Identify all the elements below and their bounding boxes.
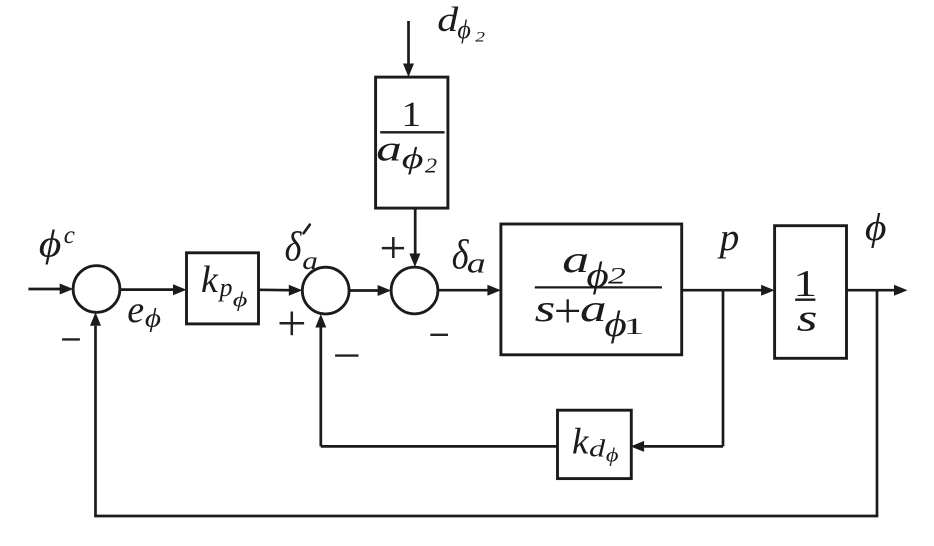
wire: 1/a block output down to summing junction S3	[409, 208, 420, 267]
label phi	[865, 206, 887, 249]
label phi^c	[39, 222, 75, 265]
svg-text:p: p	[218, 273, 233, 302]
label inside block 1/s	[793, 263, 817, 339]
svg-text:1: 1	[624, 314, 645, 339]
label delta_a	[452, 232, 486, 279]
svg-text:a: a	[580, 287, 607, 329]
block a_phi2/(s+a_phi1)	[501, 224, 682, 355]
svg-text:δ: δ	[285, 224, 303, 270]
wire: S2 to S3	[349, 285, 391, 296]
svg-text:2: 2	[608, 264, 626, 289]
wire: S1 to k_p block	[120, 284, 187, 295]
svg-text:a: a	[562, 238, 589, 280]
wire: reference input arrow into S1	[28, 284, 73, 295]
block k_d_phi	[558, 410, 632, 478]
svg-text:c: c	[64, 222, 75, 249]
svg-text:d: d	[589, 436, 606, 462]
svg-text:d: d	[437, 1, 459, 39]
svg-text:a: a	[302, 248, 318, 275]
label d_phi2	[437, 1, 485, 45]
svg-text:a: a	[376, 129, 402, 169]
svg-text:a: a	[467, 248, 486, 279]
label e_phi	[127, 289, 161, 333]
label k_d_phi inside block	[572, 422, 619, 466]
svg-text:k: k	[201, 259, 219, 301]
wire: disturbance input arrow into 1/a block	[403, 21, 414, 77]
svg-text:k: k	[572, 422, 589, 463]
block k_p_phi	[187, 253, 259, 324]
svg-text:ϕ: ϕ	[865, 206, 887, 249]
svg-text:ϕ: ϕ	[39, 223, 62, 265]
label minus at S3	[430, 334, 448, 336]
wire: feedback into k_d block (arrow pointing left)	[631, 441, 723, 452]
label k_p_phi inside block	[201, 259, 248, 312]
wire: S3 to plant block	[438, 285, 501, 296]
wire: k_d output left	[321, 445, 558, 448]
block 1/s	[775, 226, 847, 359]
svg-text:ϕ: ϕ	[402, 141, 424, 175]
svg-text:s: s	[797, 297, 818, 339]
block 1/a_phi2	[376, 77, 448, 208]
svg-text:s: s	[535, 287, 556, 329]
svg-text:ϕ: ϕ	[606, 444, 619, 466]
svg-text:ϕ: ϕ	[145, 304, 161, 333]
svg-text:2: 2	[425, 154, 437, 177]
wire: bottom feedback horizontal	[94, 515, 878, 518]
summing junction S3	[391, 267, 438, 314]
label minus at S1	[62, 338, 80, 340]
svg-text:1: 1	[401, 95, 421, 135]
label inside plant block a_phi2/(s+a_phi1)	[535, 238, 662, 344]
summing junction S2	[302, 267, 349, 314]
wire: outer feedback vertical up into S1	[90, 312, 101, 516]
wire: plant block to 1/s block	[682, 285, 775, 296]
svg-text:e: e	[127, 289, 144, 331]
label inside block 1/a_phi2	[376, 95, 444, 178]
summing junction S1	[73, 266, 120, 313]
label p	[717, 216, 740, 259]
svg-text:ϕ: ϕ	[457, 15, 470, 44]
wire: p node vertical down to k_d feedback	[722, 290, 725, 446]
svg-text:p: p	[717, 216, 740, 259]
wire: phi feedback vertical down from output	[876, 290, 879, 516]
svg-text:2: 2	[475, 29, 485, 45]
svg-text:ϕ: ϕ	[233, 289, 248, 312]
label plus at S3	[382, 237, 404, 258]
wire: k_p block to S2	[259, 285, 303, 296]
label plus at S2	[280, 312, 305, 336]
label minus at S2 feedback	[335, 354, 358, 356]
wire: k_d feedback vertical up into S2	[315, 314, 326, 446]
wire: 1/s output arrow	[847, 285, 908, 296]
label delta'_a	[285, 224, 318, 275]
